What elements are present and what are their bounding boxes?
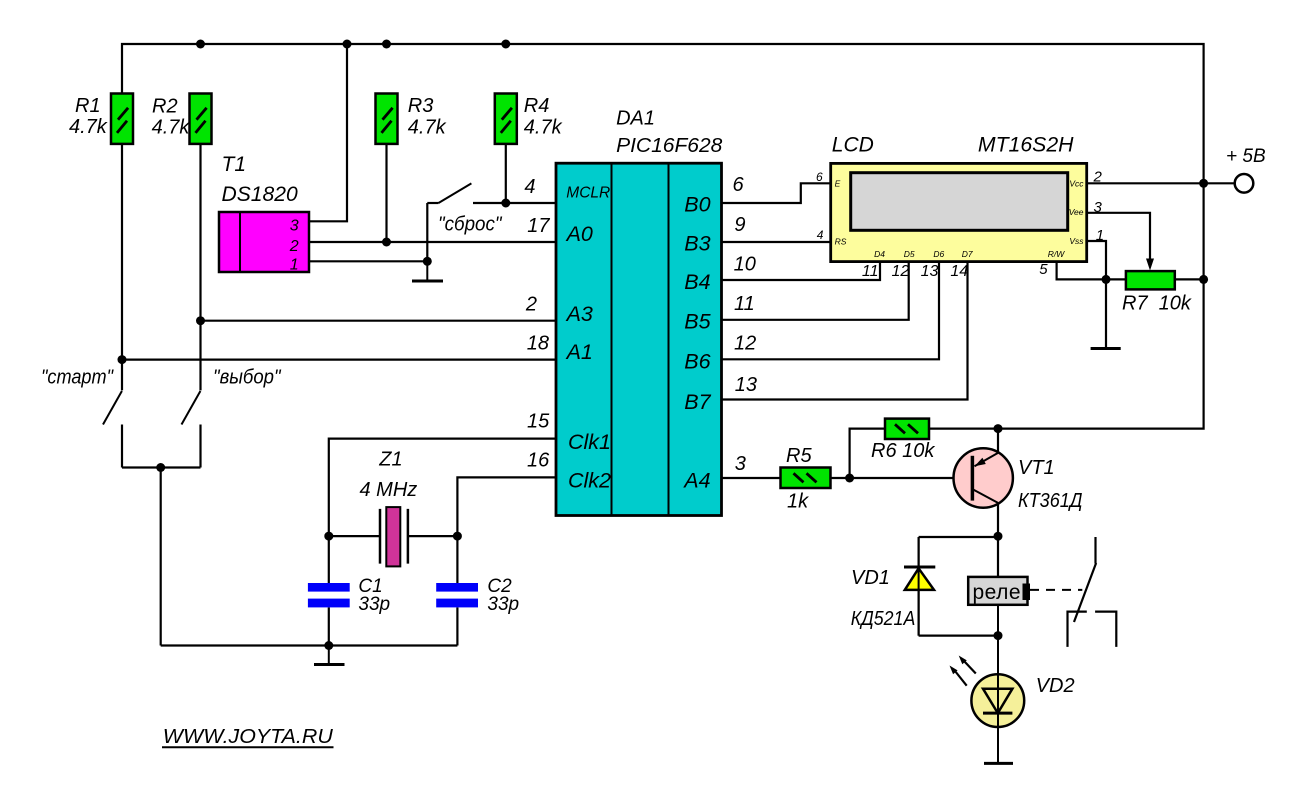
wire B3 to LCD RS <box>722 241 831 243</box>
svg-text:"старт": "старт" <box>41 366 114 388</box>
transistor VT1 KT361D <box>954 448 1083 512</box>
svg-text:3: 3 <box>735 453 746 475</box>
svg-text:A4: A4 <box>682 468 710 492</box>
wire common down <box>160 468 162 646</box>
svg-text:"выбор": "выбор" <box>213 366 281 388</box>
svg-text:VT1: VT1 <box>1018 457 1055 479</box>
junction VT1 collector / VD1 <box>994 532 1003 541</box>
terminal +5V <box>1226 146 1266 193</box>
junction top rail / R3 <box>382 40 391 49</box>
wire R6 left <box>850 429 885 478</box>
wire R7 right <box>1175 278 1204 280</box>
svg-text:B0: B0 <box>684 193 710 217</box>
svg-text:B5: B5 <box>684 310 711 334</box>
wire C1 leads <box>328 536 330 645</box>
wire MCLR <box>473 202 556 204</box>
wire LCD Vee to R7 wiper <box>1087 213 1150 259</box>
svg-text:17: 17 <box>527 215 550 237</box>
svg-text:E: E <box>835 178 841 188</box>
wire LCD R/W <box>1057 262 1106 280</box>
junction +5V / Vcc <box>1199 179 1208 188</box>
junction relay / VD1 / VD2 <box>994 631 1003 640</box>
wire vybor switch lower terminal <box>199 425 201 468</box>
junction MCLR / R4 <box>501 199 510 208</box>
svg-text:18: 18 <box>527 332 549 354</box>
wire B0 to LCD E <box>722 183 831 203</box>
junction Z1 right / C2 <box>453 532 462 541</box>
wire A3 <box>201 320 557 322</box>
wire Clk2 <box>457 477 556 536</box>
junction Z1 left / C1 <box>324 532 333 541</box>
IC pin numbers right <box>733 174 758 475</box>
wire sbros top stub <box>427 202 438 204</box>
svg-text:2: 2 <box>289 238 299 255</box>
svg-text:реле: реле <box>973 581 1021 604</box>
svg-text:+ 5В: + 5В <box>1226 146 1266 167</box>
resistor R5 1k <box>781 445 831 513</box>
wire T1 pin3 <box>309 44 347 221</box>
switch "sbros" <box>438 183 502 235</box>
wire oscillator ground rail <box>161 644 458 646</box>
wire R6 right <box>929 428 998 430</box>
svg-text:4: 4 <box>817 228 824 242</box>
svg-text:Clk1: Clk1 <box>568 430 611 454</box>
svg-text:R6 10k: R6 10k <box>871 440 935 462</box>
svg-text:A1: A1 <box>565 340 593 364</box>
switch "vybor" <box>182 366 282 424</box>
svg-text:1: 1 <box>290 256 299 273</box>
svg-text:12: 12 <box>734 333 756 355</box>
svg-text:1: 1 <box>1096 227 1104 244</box>
svg-text:3: 3 <box>290 218 299 235</box>
svg-text:D7: D7 <box>962 249 973 259</box>
svg-text:D4: D4 <box>874 249 885 259</box>
svg-text:9: 9 <box>734 214 745 236</box>
svg-text:2: 2 <box>525 294 537 316</box>
wire A4 to R5 <box>722 477 781 479</box>
wire VD1 bottom horizontal <box>919 634 998 636</box>
junction top rail / R4 <box>501 40 510 49</box>
junction switches common <box>156 463 165 472</box>
svg-text:"сброс": "сброс" <box>438 214 502 236</box>
wire B5 to LCD D5 <box>722 262 909 320</box>
svg-text:Clk2: Clk2 <box>568 468 611 492</box>
svg-text:MCLR: MCLR <box>566 184 610 201</box>
wire VT1 collector to relay <box>997 503 999 577</box>
svg-text:Vcc: Vcc <box>1069 178 1084 188</box>
junction R6 / VT1 emitter <box>994 424 1003 433</box>
svg-text:Z1: Z1 <box>378 448 402 470</box>
svg-text:6: 6 <box>733 174 745 196</box>
junction R5 / R6 <box>845 474 854 483</box>
svg-text:4.7k: 4.7k <box>69 116 108 138</box>
svg-text:PIC16F628: PIC16F628 <box>616 135 722 157</box>
junction A0 / R3 <box>382 238 391 247</box>
wire VT1 emitter vertical <box>997 429 999 453</box>
wire VD1 top horizontal <box>919 536 998 538</box>
LCD pin numbers <box>816 168 1104 280</box>
wire A1 <box>122 359 556 361</box>
LED VD2 <box>950 605 1075 764</box>
svg-text:R/W: R/W <box>1048 249 1066 259</box>
svg-text:1k: 1k <box>787 490 809 512</box>
wire Clk1 <box>329 439 556 536</box>
wire R7 left <box>1106 278 1126 280</box>
resistor R2 <box>152 94 212 144</box>
junction C1 / ground rail <box>324 641 333 650</box>
svg-text:T1: T1 <box>222 153 247 176</box>
svg-text:Vss: Vss <box>1069 236 1084 246</box>
svg-text:A3: A3 <box>565 302 593 326</box>
svg-text:14: 14 <box>950 263 968 280</box>
wire B4 to LCD D4 <box>722 262 881 280</box>
wire start switch lower terminal <box>121 425 123 468</box>
capacitor C1 33p <box>308 576 390 615</box>
wire T1 pin2 to A0 <box>309 241 556 243</box>
sensor T1 DS1820 <box>219 153 309 273</box>
wire R3 bottom <box>385 144 387 242</box>
svg-text:B7: B7 <box>684 390 711 414</box>
wire C2 leads <box>456 536 458 645</box>
junction A3 / R2 <box>196 316 205 325</box>
svg-text:33p: 33p <box>358 594 390 615</box>
wire R2 bottom to vybor switch <box>199 144 201 391</box>
wire crystal right lead <box>408 535 458 537</box>
svg-text:КТ361Д: КТ361Д <box>1018 490 1083 512</box>
svg-text:11: 11 <box>862 263 879 280</box>
junction A1 / R1 <box>118 355 127 364</box>
svg-text:Vee: Vee <box>1069 207 1084 217</box>
svg-text:VD2: VD2 <box>1036 675 1075 697</box>
svg-text:4 MHz: 4 MHz <box>360 479 418 501</box>
svg-text:4.7k: 4.7k <box>408 116 447 138</box>
wire R4 bottom <box>505 144 507 203</box>
svg-text:B4: B4 <box>684 270 710 294</box>
ground under LED <box>984 762 1013 765</box>
svg-text:15: 15 <box>527 411 550 433</box>
ground near sbros <box>412 261 443 281</box>
junction Vss / R7 left <box>1102 275 1111 284</box>
junction top rail / T1 pin3 <box>343 40 352 49</box>
svg-text:A0: A0 <box>565 222 593 246</box>
wire B7 to LCD D7 <box>722 262 968 400</box>
svg-text:MT16S2H: MT16S2H <box>978 133 1074 156</box>
wire T1 pin1 <box>309 260 427 262</box>
wire VD1 leads <box>917 537 919 636</box>
svg-text:D5: D5 <box>904 249 915 259</box>
resistor R3 <box>376 94 447 144</box>
svg-text:DA1: DA1 <box>616 108 655 130</box>
IC DA1 PIC16F628 <box>556 108 722 516</box>
wire B6 to LCD D6 <box>722 262 940 360</box>
svg-text:12: 12 <box>892 263 910 280</box>
site label WWW.JOYTA.RU <box>162 726 334 748</box>
svg-text:RS: RS <box>835 236 847 246</box>
svg-text:DS1820: DS1820 <box>222 183 299 206</box>
svg-text:10: 10 <box>734 254 756 276</box>
relay coil <box>968 577 1030 605</box>
svg-text:B6: B6 <box>684 349 710 373</box>
resistor R1 <box>69 94 133 144</box>
svg-text:13: 13 <box>921 263 939 280</box>
junction top rail / R2 <box>196 40 205 49</box>
wire R5 to transistor base <box>831 477 973 479</box>
svg-text:4: 4 <box>524 176 535 198</box>
svg-text:11: 11 <box>734 293 755 315</box>
wire crystal left lead <box>329 535 380 537</box>
potentiometer R7 10k <box>1122 259 1192 315</box>
wire sbros vertical <box>426 203 428 261</box>
svg-text:4.7k: 4.7k <box>152 116 191 138</box>
svg-text:5: 5 <box>1039 261 1048 278</box>
svg-text:R1: R1 <box>75 95 101 117</box>
svg-text:4.7k: 4.7k <box>524 117 563 139</box>
relay contact <box>1068 537 1117 647</box>
ground under C1 <box>314 646 345 665</box>
wire LCD Vcc to +5V <box>1087 182 1235 184</box>
svg-text:D6: D6 <box>933 249 944 259</box>
IC pin numbers left <box>524 176 550 472</box>
switch "start" <box>41 366 122 424</box>
svg-text:R5: R5 <box>786 445 812 467</box>
svg-text:33p: 33p <box>487 594 519 615</box>
svg-text:16: 16 <box>527 450 550 472</box>
diode VD1 KD521A <box>851 537 936 636</box>
svg-text:B3: B3 <box>684 232 710 256</box>
resistor R6 10k <box>871 419 935 463</box>
svg-text:R3: R3 <box>408 95 434 117</box>
svg-text:R4: R4 <box>524 95 550 117</box>
svg-text:VD1: VD1 <box>851 567 890 589</box>
svg-text:R7 10k: R7 10k <box>1122 293 1192 315</box>
LCD MT16S2H <box>831 133 1087 261</box>
svg-text:13: 13 <box>735 374 757 396</box>
resistor R4 <box>495 94 563 144</box>
svg-text:КД521А: КД521А <box>851 608 916 630</box>
svg-text:2: 2 <box>1093 168 1103 185</box>
relay dashed link <box>1030 589 1082 591</box>
wire LCD Vss to ground <box>1087 241 1106 348</box>
svg-text:R2: R2 <box>152 96 178 118</box>
svg-text:LCD: LCD <box>832 133 874 156</box>
svg-text:WWW.JOYTA.RU: WWW.JOYTA.RU <box>163 726 334 748</box>
wire +5V trunk <box>122 44 1204 429</box>
wire R1 bottom to start switch <box>121 144 123 391</box>
crystal Z1 4MHz <box>360 448 418 566</box>
svg-text:3: 3 <box>1094 199 1103 216</box>
capacitor C2 33p <box>436 576 519 615</box>
svg-text:6: 6 <box>816 170 823 184</box>
junction +5V / R7 <box>1199 275 1208 284</box>
wire switches common bottom <box>122 466 201 468</box>
ground under Vss <box>1091 347 1121 350</box>
junction T1 pin1 / sbros <box>423 257 432 266</box>
